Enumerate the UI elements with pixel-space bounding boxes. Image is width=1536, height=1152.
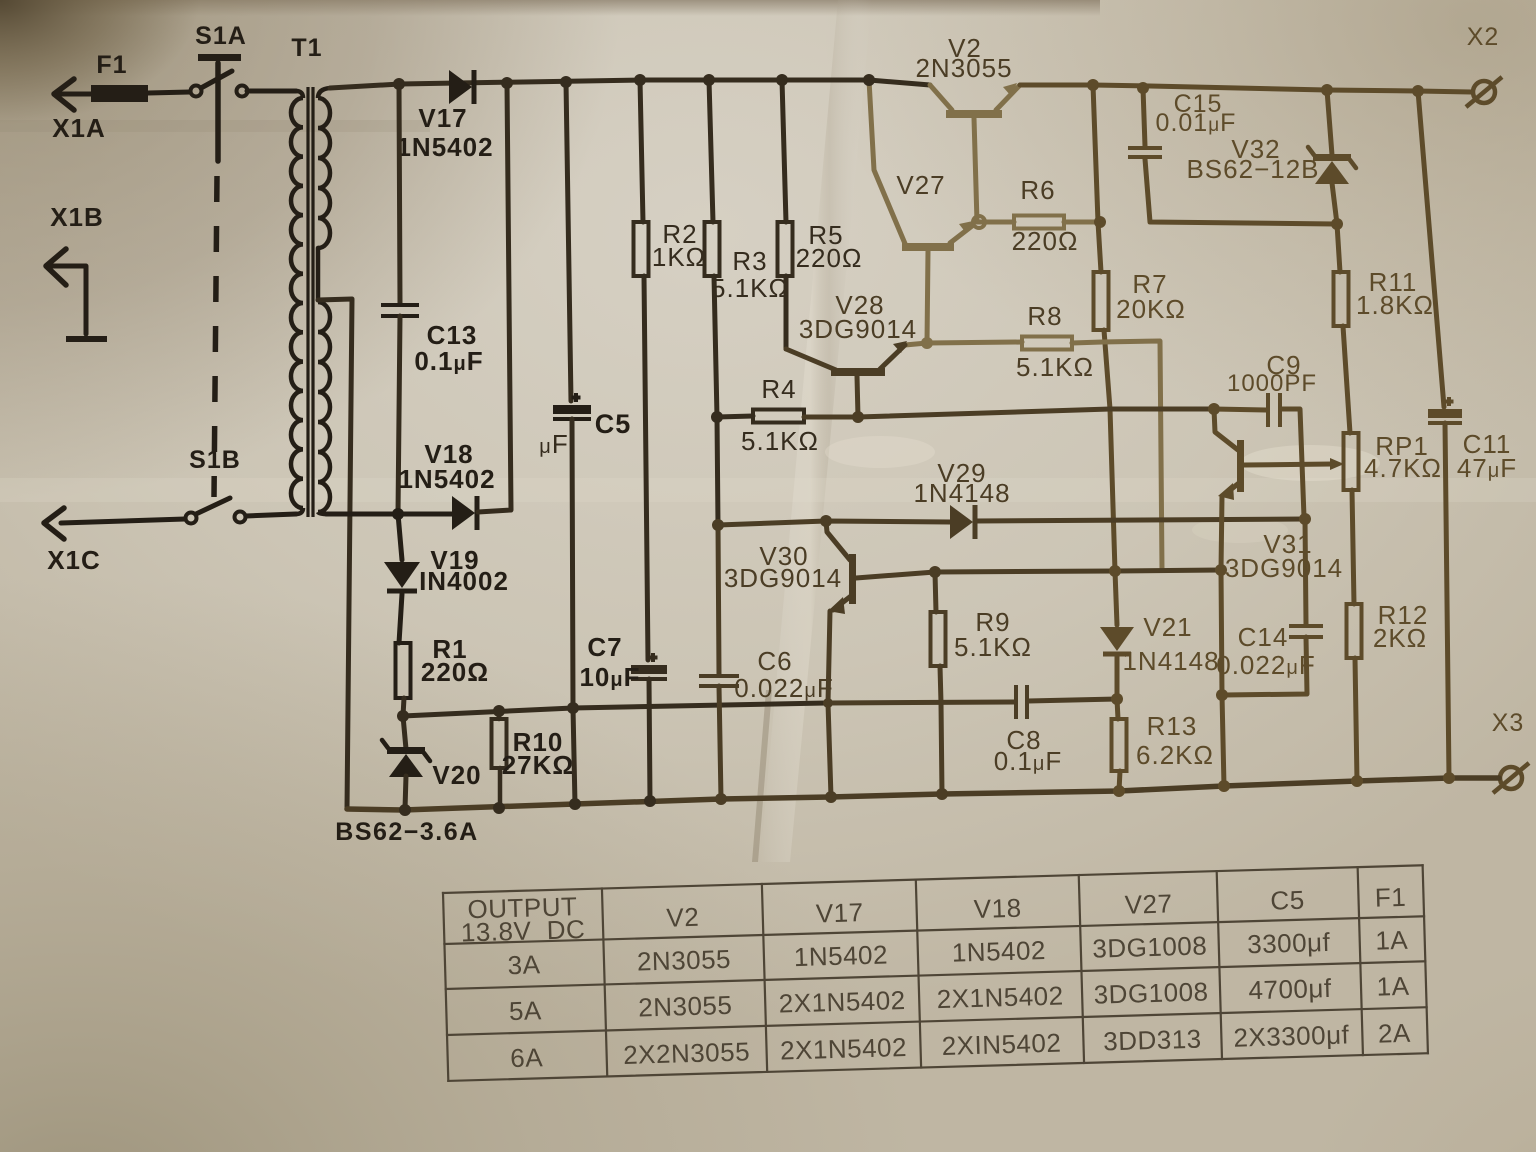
svg-text:0.01μF: 0.01μF bbox=[1156, 109, 1237, 137]
svg-text:V21: V21 bbox=[1143, 612, 1192, 642]
wire R5 branch bbox=[776, 74, 788, 86]
svg-text:F1: F1 bbox=[1374, 882, 1406, 913]
wire secondary bottom to V18 bbox=[326, 512, 452, 517]
svg-text:2X1N5402: 2X1N5402 bbox=[936, 981, 1064, 1015]
svg-text:5.1KΩ: 5.1KΩ bbox=[1016, 352, 1094, 382]
wire V31 base to RP1 wiper bbox=[1244, 464, 1332, 465]
svg-text:2N3055: 2N3055 bbox=[638, 990, 733, 1023]
svg-text:1N5402: 1N5402 bbox=[398, 464, 495, 494]
svg-text:BS62−3.6A: BS62−3.6A bbox=[335, 818, 478, 846]
svg-text:3A: 3A bbox=[507, 949, 541, 980]
svg-text:1A: 1A bbox=[1376, 971, 1410, 1002]
svg-text:BS62−12B: BS62−12B bbox=[1186, 154, 1319, 184]
wire R7 to sense node bbox=[1104, 330, 1115, 571]
svg-text:V17: V17 bbox=[815, 897, 864, 928]
capacitor C14 0.022uF bbox=[1289, 624, 1323, 628]
svg-text:R4: R4 bbox=[761, 374, 796, 404]
node rail/C13 bbox=[393, 78, 405, 90]
diode V17 1N5402 bbox=[449, 70, 472, 104]
node V28 base / R4 bbox=[852, 411, 864, 423]
svg-text:IN4002: IN4002 bbox=[419, 566, 509, 596]
svg-text:220Ω: 220Ω bbox=[796, 243, 863, 273]
svg-text:1N4148: 1N4148 bbox=[913, 478, 1010, 508]
diode V29 1N4148 bbox=[950, 505, 973, 539]
svg-text:2X1N5402: 2X1N5402 bbox=[780, 1032, 908, 1066]
wire V31 emitter to sense node bbox=[1221, 496, 1222, 570]
svg-text:10μF: 10μF bbox=[579, 662, 640, 692]
resistor R10 27K bbox=[497, 711, 502, 719]
bus junction nodes bbox=[399, 804, 411, 816]
svg-text:C5: C5 bbox=[595, 409, 632, 439]
dark photo corner top-left bbox=[0, 0, 620, 500]
wire R11 to RP1 bbox=[1343, 326, 1350, 433]
wire R12 to bus bbox=[1355, 658, 1357, 781]
svg-text:X1C: X1C bbox=[47, 545, 101, 575]
svg-text:3300μf: 3300μf bbox=[1247, 927, 1331, 959]
svg-text:C5: C5 bbox=[1270, 885, 1305, 916]
svg-text:1N5402: 1N5402 bbox=[793, 939, 888, 972]
wire F1 to S1A bbox=[148, 92, 190, 93]
transil V32 BS62-12B bbox=[1321, 84, 1333, 96]
capacitor C15 0.01uF bbox=[1137, 82, 1149, 94]
svg-text:2A: 2A bbox=[1378, 1018, 1412, 1049]
node C9/C14/V29 bbox=[1299, 513, 1311, 525]
capacitor C8 0.1uF bbox=[828, 702, 1014, 703]
svg-text:220Ω: 220Ω bbox=[421, 657, 489, 687]
dashed gang link S1A-S1B bbox=[214, 176, 217, 497]
svg-text:47μF: 47μF bbox=[1457, 453, 1517, 483]
svg-text:0.022μF: 0.022μF bbox=[1216, 650, 1316, 680]
resistor R13 6.2K bbox=[1117, 699, 1118, 719]
svg-text:R3: R3 bbox=[732, 246, 767, 276]
node R1/V20/aux rail bbox=[397, 710, 409, 722]
svg-text:X1B: X1B bbox=[50, 202, 104, 232]
resistor R6 220R bbox=[978, 220, 1014, 225]
svg-text:3DG9014: 3DG9014 bbox=[1225, 553, 1343, 583]
wire V30 collector / V29 anode bbox=[718, 521, 950, 525]
svg-text:2KΩ: 2KΩ bbox=[1373, 623, 1427, 653]
potentiometer RP1 4.7K bbox=[1344, 433, 1359, 490]
svg-text:X1A: X1A bbox=[52, 113, 106, 143]
table: output variants bbox=[443, 865, 1428, 1081]
capacitor C6 0.022uF bbox=[699, 674, 739, 678]
resistor R7 20K bbox=[1094, 272, 1109, 330]
svg-text:2X2N3055: 2X2N3055 bbox=[623, 1036, 751, 1070]
svg-text:V2: V2 bbox=[666, 902, 700, 933]
svg-text:V17: V17 bbox=[418, 103, 467, 133]
svg-text:R13: R13 bbox=[1147, 711, 1198, 741]
svg-text:F1: F1 bbox=[96, 51, 127, 79]
svg-text:1A: 1A bbox=[1375, 925, 1409, 956]
node V21/C8/R13 bbox=[1111, 693, 1123, 705]
wire R1 to node bbox=[403, 698, 404, 716]
svg-text:2XIN5402: 2XIN5402 bbox=[941, 1028, 1061, 1061]
svg-text:3DG1008: 3DG1008 bbox=[1093, 976, 1209, 1009]
vertical paper crease bbox=[760, 0, 872, 862]
capacitor C11 47uF (electrolytic) bbox=[1412, 85, 1424, 97]
node V31 collector / C9 / R4 wire bbox=[1208, 403, 1220, 415]
svg-text:R8: R8 bbox=[1027, 301, 1062, 331]
node aux rail end bbox=[823, 698, 833, 708]
resistor R3 5.1K bbox=[705, 222, 720, 276]
svg-text:5A: 5A bbox=[509, 995, 543, 1026]
resistor R2 1K bbox=[634, 222, 649, 276]
fuse F1 bbox=[91, 85, 148, 102]
capacitor C5 (electrolytic) bbox=[572, 393, 581, 402]
diode V18 1N5402 bbox=[452, 496, 475, 530]
svg-text:0.022μF: 0.022μF bbox=[734, 673, 834, 703]
wire X1C input lead bbox=[61, 519, 185, 523]
resistor R5 220R bbox=[778, 222, 793, 276]
wire X1A input lead bbox=[57, 92, 92, 97]
svg-text:0.1μF: 0.1μF bbox=[414, 346, 483, 376]
svg-text:27KΩ: 27KΩ bbox=[502, 750, 575, 780]
node V18 wire / V19 branch bbox=[392, 508, 404, 520]
svg-text:2X3300μf: 2X3300μf bbox=[1233, 1019, 1350, 1052]
resistor R11 1.8K bbox=[1337, 224, 1340, 272]
wire output rail (V2 emitter to X2) bbox=[1020, 85, 1471, 92]
svg-text:V27: V27 bbox=[1124, 888, 1173, 919]
svg-text:T1: T1 bbox=[291, 34, 322, 62]
svg-text:C14: C14 bbox=[1238, 622, 1289, 652]
wire R8 to sense node bbox=[1072, 341, 1162, 570]
svg-text:2N3055: 2N3055 bbox=[637, 944, 732, 977]
node R3/R4 bbox=[711, 411, 723, 423]
resistor R9 5.1K bbox=[935, 572, 936, 612]
wire 0V bottom bus bbox=[347, 778, 1499, 810]
wire R2/C7 branch bbox=[634, 74, 646, 86]
svg-text:2X1N5402: 2X1N5402 bbox=[778, 985, 906, 1019]
svg-text:V27: V27 bbox=[896, 170, 945, 200]
svg-text:V20: V20 bbox=[432, 760, 481, 790]
wire secondary centre tap to 0V bus bbox=[318, 299, 352, 809]
svg-text:1N5402: 1N5402 bbox=[396, 132, 493, 162]
svg-text:1000PF: 1000PF bbox=[1227, 370, 1317, 397]
transformer core bbox=[306, 87, 309, 517]
wire S1A to transformer primary bbox=[247, 89, 296, 94]
wire V30 base / sense node bbox=[856, 570, 1221, 578]
svg-text:X2: X2 bbox=[1467, 23, 1500, 51]
node V2 base / V27 emitter / R6 (open contact) bbox=[973, 216, 985, 228]
resistor R12 2K bbox=[1347, 604, 1362, 658]
svg-text:1N5402: 1N5402 bbox=[951, 935, 1046, 968]
svg-text:V18: V18 bbox=[973, 893, 1022, 924]
svg-text:4700μf: 4700μf bbox=[1248, 973, 1332, 1005]
wire aux negative rail bbox=[403, 703, 826, 716]
wire R7 branch from rail bbox=[1087, 79, 1099, 91]
paper shine spots bbox=[1240, 445, 1380, 481]
diode V19 IN4002 bbox=[398, 514, 402, 560]
svg-text:5.1KΩ: 5.1KΩ bbox=[954, 632, 1032, 662]
wire RP1 to R12 bbox=[1352, 490, 1354, 604]
svg-text:X3: X3 bbox=[1492, 709, 1525, 737]
node V27 base on R8 wire bbox=[921, 337, 933, 349]
wire R5 to V28 collector bbox=[784, 276, 789, 349]
resistor R4 5.1K bbox=[717, 416, 753, 417]
svg-text:3DD313: 3DD313 bbox=[1103, 1024, 1202, 1057]
wire R4 to V31 collector node bbox=[804, 409, 1214, 417]
wire V28 base lead bbox=[857, 376, 858, 417]
svg-text:2N3055: 2N3055 bbox=[915, 53, 1012, 83]
terminal X3 bbox=[1500, 767, 1522, 789]
svg-text:3DG1008: 3DG1008 bbox=[1092, 930, 1208, 963]
svg-text:4.7KΩ: 4.7KΩ bbox=[1364, 453, 1442, 483]
svg-text:6.2KΩ: 6.2KΩ bbox=[1136, 740, 1214, 770]
svg-text:3DG9014: 3DG9014 bbox=[724, 563, 842, 593]
wire C14/V31-emitter leg to bus bbox=[1216, 689, 1228, 701]
svg-text:R6: R6 bbox=[1020, 175, 1055, 205]
arrowhead X1A bbox=[54, 79, 74, 110]
wire V2 base lead bbox=[974, 118, 977, 222]
svg-text:220Ω: 220Ω bbox=[1012, 226, 1079, 256]
svg-text:S1A: S1A bbox=[195, 22, 247, 50]
wire C13 to V18 wire bbox=[398, 316, 400, 514]
horizontal paper crease bbox=[0, 478, 1536, 502]
svg-text:20KΩ: 20KΩ bbox=[1116, 294, 1186, 324]
capacitor C7 10uF (electrolytic) bbox=[649, 653, 658, 662]
wire S1B to transformer primary bbox=[246, 514, 296, 516]
terminal X2 bbox=[1473, 81, 1495, 103]
wire R3/C6 branch bbox=[703, 74, 715, 86]
svg-text:13.8V DC: 13.8V DC bbox=[460, 914, 585, 948]
wire V27 base lead bbox=[927, 251, 928, 343]
wire V19 to R1 bbox=[399, 594, 402, 643]
svg-text:5.1KΩ: 5.1KΩ bbox=[741, 426, 819, 456]
diode V21 1N4148 (to sense node) bbox=[1115, 571, 1117, 625]
svg-text:1.8KΩ: 1.8KΩ bbox=[1356, 290, 1434, 320]
wire V28 emitter / R8 bbox=[905, 342, 1022, 345]
wire V18 cathode riser to rail bbox=[478, 84, 511, 512]
arrowhead X1C bbox=[44, 508, 64, 539]
secondary winding bbox=[318, 88, 330, 98]
node V32/C15/R11 bbox=[1331, 218, 1343, 230]
node V30 collector wire start bbox=[712, 519, 724, 531]
wire C14 branch bbox=[1305, 519, 1306, 624]
node R10 top bbox=[493, 705, 505, 717]
resistor R1 220R bbox=[396, 643, 411, 698]
svg-text:1KΩ: 1KΩ bbox=[652, 242, 706, 272]
svg-text:S1B: S1B bbox=[189, 446, 241, 474]
node V30 collector bbox=[820, 515, 832, 527]
svg-text:0.1μF: 0.1μF bbox=[994, 746, 1063, 776]
wire C13 branch upper bbox=[399, 84, 400, 303]
svg-text:6A: 6A bbox=[510, 1042, 544, 1073]
svg-text:3DG9014: 3DG9014 bbox=[799, 314, 917, 344]
wire V30 emitter down to bus bbox=[828, 611, 831, 797]
wire C5 branch bbox=[560, 76, 572, 88]
svg-text:1N4148: 1N4148 bbox=[1122, 646, 1219, 676]
svg-text:C6: C6 bbox=[757, 646, 792, 676]
wire V29 cathode to C9/C14 node bbox=[975, 519, 1305, 521]
resistor R8 5.1K bbox=[1022, 337, 1072, 350]
svg-text:C7: C7 bbox=[587, 632, 622, 662]
wire top rail (rectifier output) bbox=[330, 80, 930, 88]
capacitor C13 0.1uF bbox=[381, 303, 419, 307]
transil V20 BS62-3.6A bbox=[403, 716, 406, 749]
